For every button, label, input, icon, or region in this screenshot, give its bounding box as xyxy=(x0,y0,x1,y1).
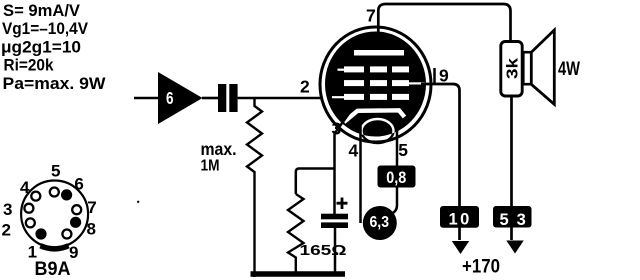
ground rail xyxy=(251,271,346,277)
supply arrow anode xyxy=(506,241,523,254)
pin 2 xyxy=(26,218,35,227)
anode current box 53 xyxy=(493,206,532,228)
svg-text:6,3: 6,3 xyxy=(370,214,390,231)
svg-text:4: 4 xyxy=(349,141,359,161)
cathode resistor 165 ohm xyxy=(288,169,347,274)
preamp triangle stage 6 xyxy=(158,72,203,124)
svg-text:9: 9 xyxy=(439,65,449,85)
svg-text:Ri=20k: Ri=20k xyxy=(4,56,54,75)
capacitor bottom lead xyxy=(334,228,337,273)
pentode tube envelope xyxy=(320,27,431,143)
heater wire pin 4 xyxy=(359,126,362,223)
anode wire pin 7 xyxy=(378,4,510,45)
input wire xyxy=(134,97,158,100)
svg-text:6: 6 xyxy=(166,88,174,108)
transformer box 3k xyxy=(501,42,522,97)
screen grid wire pin 9 xyxy=(421,84,460,240)
output transformer primary 3k xyxy=(501,42,522,241)
svg-text:Pa=max. 9W: Pa=max. 9W xyxy=(3,74,107,93)
svg-text:165Ω: 165Ω xyxy=(300,243,347,259)
svg-text:8: 8 xyxy=(87,220,96,239)
heater voltage circle 6,3 xyxy=(363,206,397,240)
svg-text:10: 10 xyxy=(449,211,472,229)
capacitor top plate xyxy=(321,214,348,220)
svg-text:0,8: 0,8 xyxy=(386,168,406,187)
heater filament loop (white inside disc) xyxy=(362,119,394,143)
stray ink dot xyxy=(137,201,139,203)
wire junction from cathode line to resistor xyxy=(296,169,335,195)
svg-text:3: 3 xyxy=(3,200,12,219)
svg-text:B9A: B9A xyxy=(35,258,71,280)
tube inner disc xyxy=(325,32,426,137)
svg-text:max.: max. xyxy=(201,139,237,159)
cathode wire pin 3 xyxy=(335,112,351,214)
pin 3 xyxy=(24,204,33,213)
grid resistor max 1M xyxy=(201,98,263,277)
svg-text:5: 5 xyxy=(51,162,60,181)
grid g1 row xyxy=(332,94,409,100)
pin 8 xyxy=(70,217,81,228)
svg-text:2: 2 xyxy=(2,221,11,240)
svg-text:3: 3 xyxy=(332,119,342,139)
svg-text:5: 5 xyxy=(398,140,408,160)
socket circle xyxy=(21,181,88,248)
pin 6 xyxy=(61,189,72,200)
coupling capacitor plate right xyxy=(229,84,237,112)
wire triangle to capacitor xyxy=(202,97,218,100)
svg-text:7: 7 xyxy=(87,198,96,217)
cathode xyxy=(344,110,405,122)
svg-text:3k: 3k xyxy=(504,58,521,79)
pin 4 xyxy=(31,192,40,201)
svg-text:2: 2 xyxy=(300,77,310,97)
anode plate bar xyxy=(354,50,404,56)
svg-text:53: 53 xyxy=(500,211,534,229)
coupling capacitor plate left xyxy=(218,84,226,112)
capacitor bottom plate xyxy=(321,222,348,228)
svg-text:+170: +170 xyxy=(462,256,500,278)
svg-text:S= 9mA/V: S= 9mA/V xyxy=(3,1,81,20)
B9A socket xyxy=(2,162,97,280)
label 3k rotated xyxy=(504,58,521,79)
wire 3k to anode supply xyxy=(510,95,513,240)
svg-text:μg2g1=10: μg2g1=10 xyxy=(1,37,81,56)
pin 9 xyxy=(62,230,71,239)
svg-text:7: 7 xyxy=(366,6,376,26)
heater current box 0,8 xyxy=(378,166,416,188)
grid g3 row xyxy=(338,66,410,72)
svg-text:4W: 4W xyxy=(558,59,580,80)
wire capacitor to tube grid pin 2 xyxy=(238,97,332,100)
socket gap key arc xyxy=(41,246,69,249)
grid g2 row xyxy=(344,80,425,86)
cathode bypass capacitor (electrolytic) xyxy=(321,198,348,274)
tube outer circle xyxy=(320,27,431,142)
svg-text:4: 4 xyxy=(20,178,30,197)
capacitor plus sign xyxy=(337,198,348,210)
svg-text:1M: 1M xyxy=(201,157,220,174)
speaker cone xyxy=(531,30,554,104)
resistor 1M zigzag xyxy=(247,98,262,277)
heater filament loop (black outside disc) xyxy=(362,119,394,143)
resistor 165 zigzag xyxy=(288,194,304,273)
supply arrow screen xyxy=(452,241,469,254)
svg-text:6: 6 xyxy=(74,175,83,194)
speaker driver box xyxy=(523,52,531,84)
svg-text:Vg1=–10,4V: Vg1=–10,4V xyxy=(2,19,89,38)
screen current box 10 xyxy=(440,206,479,228)
pin 1 xyxy=(35,228,46,239)
tube data text block xyxy=(1,1,106,93)
pin 9 stub at tube edge xyxy=(433,68,436,84)
heater wire pin 5 xyxy=(392,126,398,214)
loudspeaker xyxy=(523,30,580,104)
pin 7 xyxy=(72,205,81,214)
pin 5 xyxy=(50,188,59,197)
